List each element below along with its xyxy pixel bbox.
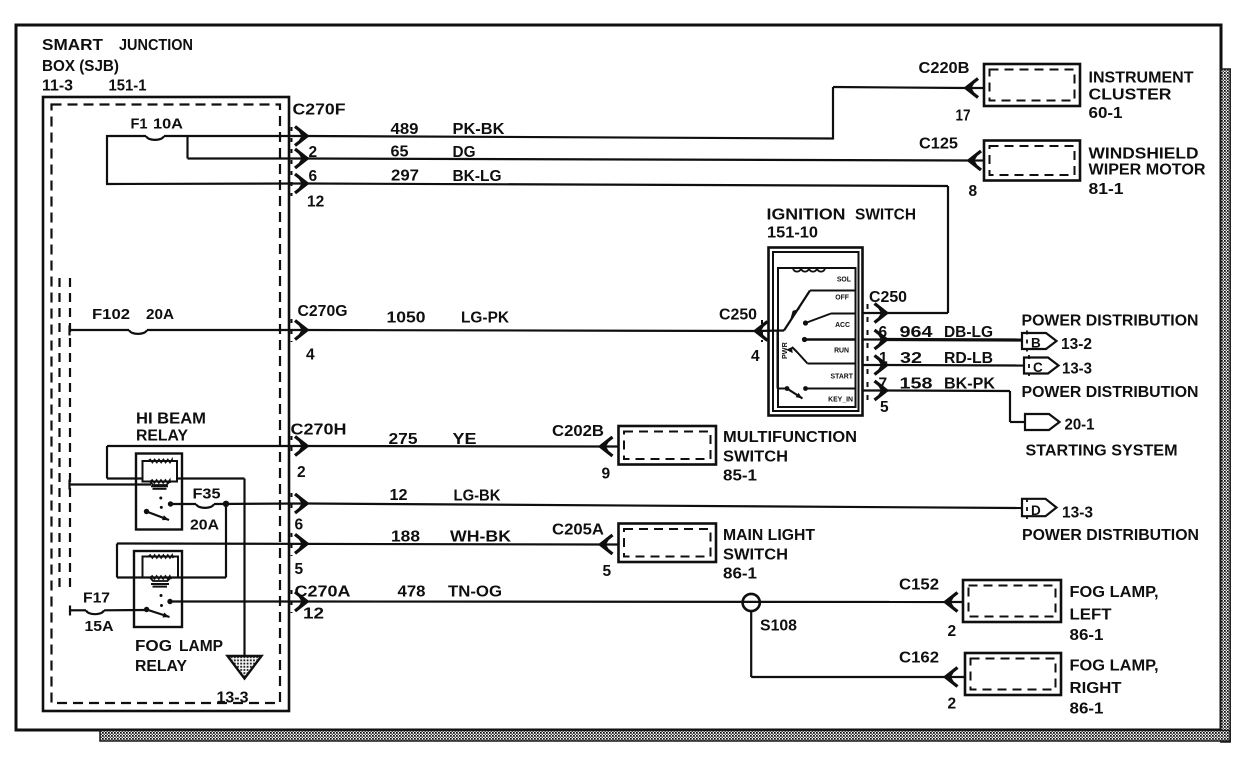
svg-text:86-1: 86-1 xyxy=(1070,627,1104,644)
svg-text:188: 188 xyxy=(391,529,420,546)
svg-text:20-1: 20-1 xyxy=(1065,417,1095,434)
grid ref D pentagon 13-3 power distribution xyxy=(1022,498,1199,544)
svg-text:151-10: 151-10 xyxy=(767,225,818,242)
svg-text:9: 9 xyxy=(602,466,611,483)
svg-text:C152: C152 xyxy=(899,577,939,594)
connector C152 arrow pin 2 xyxy=(946,593,964,641)
page shadow bar bottom xyxy=(100,731,1230,742)
connector C250 pin 1 arrow xyxy=(863,350,889,375)
svg-text:85-1: 85-1 xyxy=(723,468,757,485)
fog lamp right label xyxy=(1070,658,1159,718)
svg-text:6: 6 xyxy=(879,324,888,341)
SJB inner dashed bus line 1 xyxy=(58,278,60,590)
svg-text:BK-PK: BK-PK xyxy=(944,376,996,393)
connector C270H pin 2 arrow xyxy=(292,436,308,481)
svg-text:RELAY: RELAY xyxy=(136,428,189,445)
svg-text:LEFT: LEFT xyxy=(1070,607,1113,624)
connector C270G pin 4 arrow xyxy=(292,319,316,364)
hi beam relay label xyxy=(136,411,206,445)
svg-text:2: 2 xyxy=(948,623,957,640)
instrument cluster label xyxy=(1089,70,1195,123)
svg-text:20A: 20A xyxy=(146,306,174,323)
SJB inner dashed bus line 2 xyxy=(69,278,71,590)
svg-text:4: 4 xyxy=(751,348,760,365)
connector C250 right SOL row arrow xyxy=(863,304,887,323)
ignition switch ACC contact xyxy=(803,314,856,326)
svg-text:12: 12 xyxy=(303,606,324,623)
hi beam relay switch xyxy=(144,497,173,521)
svg-text:CLUSTER: CLUSTER xyxy=(1089,87,1172,104)
svg-text:FOG LAMP,: FOG LAMP, xyxy=(1070,658,1159,675)
svg-text:ACC: ACC xyxy=(835,322,850,329)
svg-text:1050: 1050 xyxy=(387,310,426,327)
svg-text:13-2: 13-2 xyxy=(1061,336,1092,353)
svg-text:C: C xyxy=(1033,360,1043,375)
wire 32 RD-LB xyxy=(887,350,1025,367)
fog lamp relay coil xyxy=(143,555,179,587)
wire 158 BK-PK xyxy=(887,376,1026,423)
connector C250 pin 6 arrow xyxy=(863,324,888,349)
wire 297 BK-LG inside SJB xyxy=(106,182,306,185)
svg-text:158: 158 xyxy=(900,376,933,393)
svg-text:WINDSHIELD: WINDSHIELD xyxy=(1089,146,1199,163)
svg-text:BK-LG: BK-LG xyxy=(453,168,502,185)
svg-text:151-1: 151-1 xyxy=(109,78,147,95)
svg-text:F102: F102 xyxy=(92,306,130,323)
svg-text:275: 275 xyxy=(389,431,418,448)
wire F1 branch vertical left xyxy=(106,135,108,184)
svg-text:C250: C250 xyxy=(719,307,757,324)
svg-text:11-3: 11-3 xyxy=(42,78,73,95)
svg-text:32: 32 xyxy=(900,350,922,367)
connector C270F dashed line xyxy=(291,127,293,196)
svg-text:6: 6 xyxy=(295,517,304,534)
svg-text:STARTING SYSTEM: STARTING SYSTEM xyxy=(1026,443,1178,460)
svg-text:BOX (SJB): BOX (SJB) xyxy=(42,58,119,75)
svg-text:489: 489 xyxy=(391,121,419,138)
svg-text:15A: 15A xyxy=(85,619,115,635)
svg-text:F17: F17 xyxy=(83,591,110,607)
junction after F35 xyxy=(223,501,229,507)
svg-text:C162: C162 xyxy=(899,650,939,667)
svg-text:LAMP: LAMP xyxy=(179,638,223,655)
wire F1 branch vertical mid xyxy=(186,135,188,159)
svg-text:B: B xyxy=(1031,336,1041,351)
fuse F17 15A label xyxy=(83,591,114,636)
svg-text:13-3: 13-3 xyxy=(217,690,249,707)
svg-text:POWER DISTRIBUTION: POWER DISTRIBUTION xyxy=(1022,384,1199,401)
multifunction switch label xyxy=(723,429,857,485)
svg-text:RIGHT: RIGHT xyxy=(1070,680,1123,697)
fog lamp left box xyxy=(963,580,1061,622)
svg-text:RELAY: RELAY xyxy=(135,658,188,675)
svg-text:964: 964 xyxy=(900,324,933,341)
grid ref B pentagon 13-2 xyxy=(1022,331,1092,354)
svg-text:SWITCH: SWITCH xyxy=(723,449,788,466)
grid ref pentagon 20-1 starting system xyxy=(1025,414,1095,434)
ignition switch OFF contact line xyxy=(810,290,856,292)
ignition switch START contact xyxy=(786,346,856,363)
windshield wiper motor box xyxy=(984,141,1080,181)
wire 478 TN-OG xyxy=(170,584,946,603)
svg-text:F35: F35 xyxy=(193,487,221,503)
ignition switch common feed line xyxy=(756,331,788,389)
splice S108 xyxy=(743,594,798,635)
connector C162 arrow pin 2 xyxy=(946,668,966,713)
svg-text:478: 478 xyxy=(398,584,426,601)
svg-text:MULTIFUNCTION: MULTIFUNCTION xyxy=(723,429,857,446)
svg-text:7: 7 xyxy=(879,376,888,393)
wire 489 PK-BK xyxy=(307,87,966,140)
svg-text:86-1: 86-1 xyxy=(1070,701,1104,718)
svg-text:13-3: 13-3 xyxy=(1062,505,1093,522)
svg-text:WIPER MOTOR: WIPER MOTOR xyxy=(1089,162,1206,179)
SJB inner dashed box xyxy=(52,105,281,704)
svg-text:SOL: SOL xyxy=(837,277,851,284)
fog lamp relay label xyxy=(135,638,223,675)
wire 12 LG-BK xyxy=(307,487,1022,508)
svg-text:20A: 20A xyxy=(190,518,220,534)
svg-text:60-1: 60-1 xyxy=(1089,105,1123,122)
svg-text:FOG: FOG xyxy=(135,638,172,655)
svg-text:IGNITION: IGNITION xyxy=(767,207,846,224)
svg-text:WH-BK: WH-BK xyxy=(450,529,512,546)
hi beam relay coil xyxy=(143,459,178,488)
svg-text:RD-LB: RD-LB xyxy=(944,350,993,367)
fuse F17 wire with element xyxy=(70,606,147,616)
fog lamp left label xyxy=(1070,584,1159,644)
svg-text:PK-BK: PK-BK xyxy=(453,121,506,138)
svg-text:LG-BK: LG-BK xyxy=(454,488,502,505)
svg-text:FOG LAMP,: FOG LAMP, xyxy=(1070,584,1159,601)
hi beam relay box xyxy=(136,454,182,530)
connector C202B arrow pin 9 xyxy=(601,437,619,483)
svg-text:START: START xyxy=(831,374,854,381)
wire 297 BK-LG xyxy=(307,168,948,314)
wire 65 DG xyxy=(307,144,969,162)
main light switch box xyxy=(619,524,717,563)
connector C270F pin 6 arrow xyxy=(295,149,307,168)
svg-text:C220B: C220B xyxy=(919,60,970,77)
fuse F102 wire with element xyxy=(70,326,307,336)
instrument cluster box xyxy=(984,64,1080,106)
svg-text:5: 5 xyxy=(603,563,612,580)
ignition switch inner box xyxy=(773,252,859,411)
svg-text:SMART: SMART xyxy=(42,37,103,54)
ignition switch label xyxy=(767,207,917,242)
wire 188 WH-BK xyxy=(117,529,601,546)
svg-text:C270F: C270F xyxy=(293,102,346,119)
ignition switch outer box xyxy=(769,248,863,416)
multifunction switch box xyxy=(619,426,717,465)
svg-text:297: 297 xyxy=(391,168,419,185)
svg-text:JUNCTION: JUNCTION xyxy=(119,37,193,54)
SJB label SMART JUNCTION BOX (SJB) xyxy=(42,37,193,95)
svg-text:C205A: C205A xyxy=(552,522,604,539)
windshield wiper motor label xyxy=(1089,146,1206,199)
svg-text:F1: F1 xyxy=(131,116,149,133)
ignition switch wiper arm to OFF xyxy=(784,291,810,331)
svg-text:10A: 10A xyxy=(153,116,183,133)
fuse F1 10A label xyxy=(131,116,184,133)
fuse F102 20A label xyxy=(92,306,174,323)
connector C270A pin 12 arrow xyxy=(292,590,325,623)
svg-text:13-3: 13-3 xyxy=(1062,361,1092,378)
connector C125 arrow pin 8 xyxy=(969,151,985,200)
svg-text:86-1: 86-1 xyxy=(723,566,757,583)
wire splice to fog lamp right xyxy=(751,611,945,677)
fog lamp right box xyxy=(965,653,1061,695)
svg-text:INSTRUMENT: INSTRUMENT xyxy=(1089,70,1195,87)
svg-text:DB-LG: DB-LG xyxy=(944,324,993,341)
main light switch label xyxy=(723,527,816,583)
svg-text:RUN: RUN xyxy=(834,348,849,355)
connector C250 right dashed line xyxy=(867,304,869,401)
fuse F35 wire with element xyxy=(171,504,307,508)
svg-text:5: 5 xyxy=(880,399,889,416)
svg-text:SWITCH: SWITCH xyxy=(855,207,916,224)
fog lamp relay box xyxy=(134,551,182,627)
connector C270 pin 6 arrow xyxy=(292,493,308,534)
svg-text:MAIN LIGHT: MAIN LIGHT xyxy=(723,527,816,544)
grid ref C pentagon 13-3 xyxy=(1024,355,1092,378)
svg-text:KEY_IN: KEY_IN xyxy=(828,397,853,404)
svg-text:C125: C125 xyxy=(919,136,958,153)
wire hi beam relay feed from SJB bus xyxy=(70,480,152,490)
connector C270F pin 2 arrow xyxy=(295,127,307,146)
svg-text:POWER DISTRIBUTION: POWER DISTRIBUTION xyxy=(1022,527,1199,544)
svg-text:TN-OG: TN-OG xyxy=(448,584,502,601)
svg-text:LG-PK: LG-PK xyxy=(461,310,510,327)
wire hi beam coil feed from C270H xyxy=(107,446,306,479)
connector C205A arrow pin 5 xyxy=(601,535,619,580)
connector C220B arrow pin 17 xyxy=(956,79,985,125)
wire 275 YE xyxy=(307,431,601,448)
fuse F35 20A label xyxy=(190,487,221,534)
svg-text:5: 5 xyxy=(295,561,304,578)
svg-text:YE: YE xyxy=(453,431,477,448)
ignition switch KEY_IN contact xyxy=(785,386,856,398)
fuse F1 wire with element xyxy=(107,136,306,140)
svg-text:81-1: 81-1 xyxy=(1089,181,1124,198)
fog lamp relay feed loop xyxy=(117,544,226,578)
wire 65 DG inside SJB xyxy=(188,157,307,159)
connector C270F pin 12 arrow xyxy=(295,174,307,193)
svg-text:D: D xyxy=(1031,503,1041,518)
svg-text:4: 4 xyxy=(306,347,315,364)
svg-text:S108: S108 xyxy=(760,618,797,635)
connector C250 pin 7 arrow xyxy=(863,376,888,401)
wire 964 DB-LG xyxy=(887,324,1023,341)
svg-text:65: 65 xyxy=(391,144,409,161)
svg-text:2: 2 xyxy=(297,464,306,481)
svg-text:2: 2 xyxy=(948,696,957,713)
connector C250 left arrow pin 4 xyxy=(751,320,768,365)
svg-text:C270H: C270H xyxy=(291,422,347,439)
svg-text:12: 12 xyxy=(390,487,408,504)
svg-text:POWER DISTRIBUTION: POWER DISTRIBUTION xyxy=(1022,313,1199,330)
ignition switch RUN contact xyxy=(802,337,856,342)
svg-text:12: 12 xyxy=(307,194,324,211)
fog lamp relay switch xyxy=(144,594,173,617)
ground symbol xyxy=(228,656,262,679)
SJB outer box xyxy=(43,97,289,711)
svg-text:C270G: C270G xyxy=(298,303,348,320)
svg-text:DG: DG xyxy=(453,144,476,161)
svg-text:C202B: C202B xyxy=(552,423,604,440)
svg-text:OFF: OFF xyxy=(835,295,849,302)
svg-text:SWITCH: SWITCH xyxy=(723,547,788,564)
ignition switch content box with coil xyxy=(778,268,856,407)
wire hi beam coil to ground xyxy=(177,479,245,657)
svg-text:HI BEAM: HI BEAM xyxy=(136,411,206,428)
wire 1050 LG-PK xyxy=(307,310,756,332)
svg-text:17: 17 xyxy=(956,108,971,125)
connector C270 pin 5 arrow xyxy=(292,533,308,578)
page shadow bar right xyxy=(1221,69,1230,742)
wire F35 junction down to fog relay feed xyxy=(225,504,227,544)
svg-text:8: 8 xyxy=(969,183,978,200)
